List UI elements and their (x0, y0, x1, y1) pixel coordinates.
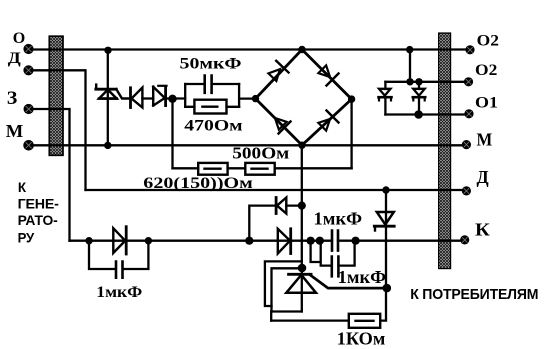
svg-text:470Ом: 470Ом (184, 118, 242, 135)
svg-text:РУ: РУ (18, 230, 35, 246)
svg-text:К: К (18, 179, 27, 195)
svg-text:О1: О1 (475, 95, 498, 112)
svg-text:Д: Д (477, 167, 490, 187)
svg-text:РАТО-: РАТО- (18, 212, 58, 228)
svg-text:М: М (6, 121, 24, 141)
svg-text:500Ом: 500Ом (232, 144, 289, 163)
svg-text:О: О (13, 30, 25, 47)
svg-text:1мкФ: 1мкФ (314, 209, 363, 229)
svg-text:50мкФ: 50мкФ (180, 56, 242, 73)
svg-text:О2: О2 (475, 62, 498, 79)
svg-text:З: З (7, 88, 17, 109)
svg-text:1мкФ: 1мкФ (338, 267, 386, 287)
svg-text:К: К (475, 220, 490, 240)
svg-text:Д: Д (8, 50, 21, 67)
svg-text:1КОм: 1КОм (337, 328, 386, 348)
svg-text:1мкФ: 1мкФ (96, 284, 142, 301)
svg-text:О2: О2 (477, 33, 500, 50)
svg-text:620(150))Ом: 620(150))Ом (143, 175, 253, 192)
svg-text:К ПОТРЕБИТЕЛЯМ: К ПОТРЕБИТЕЛЯМ (410, 286, 538, 303)
svg-text:М: М (477, 130, 493, 150)
svg-text:ГЕНЕ-: ГЕНЕ- (18, 195, 60, 211)
